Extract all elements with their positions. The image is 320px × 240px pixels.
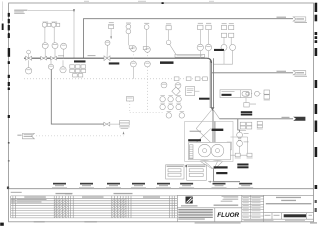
pump skid box — [189, 142, 231, 159]
instrument tag group TG2 — [221, 25, 233, 44]
control valve CV1 — [104, 40, 110, 60]
pipe line D wire — [220, 118, 294, 120]
wire G2 to bubble B2 — [53, 27, 55, 42]
strainer S1 — [237, 132, 243, 138]
bubble C3b — [145, 61, 151, 67]
detail box DB2 — [187, 165, 207, 181]
pipe line B (top header) wire — [84, 19, 294, 59]
dashed wire C3 to C3b — [146, 52, 148, 61]
instrument bubble B1 — [42, 43, 48, 59]
rev cell text — [309, 215, 313, 216]
wire LB1 to riser — [195, 90, 200, 92]
note text in skid — [190, 131, 202, 132]
riser bundle wires — [210, 58, 213, 108]
discharge label L10 (dark) — [216, 172, 227, 174]
continuation label CL4 — [131, 183, 146, 188]
wire V4 to tag TB1 — [110, 123, 120, 125]
valve V1 with actuator — [26, 50, 32, 60]
junction JX fan wires — [196, 110, 219, 142]
instrument bubble I1 below V1 — [25, 60, 31, 74]
client logo — [181, 197, 198, 207]
plot stamp texts below frame — [34, 221, 317, 223]
right edge binding marks — [315, 3, 318, 212]
pipe D label — [282, 117, 290, 118]
suction cone wires — [201, 162, 223, 169]
discharge wire down — [208, 169, 240, 183]
table header text — [24, 196, 46, 197]
continuation label CL7 — [212, 183, 227, 188]
signature hatching — [54, 198, 126, 218]
pipe B size label — [277, 17, 287, 18]
labels L11 (dark rows) — [237, 164, 248, 169]
rev row 2 text — [17, 201, 42, 202]
continuation label CL3 — [106, 183, 121, 188]
pipe A size text — [88, 55, 96, 56]
off-page connector flag F1 — [293, 17, 307, 23]
instrument bubbles J1 J2 — [197, 44, 212, 58]
pipe line C wire — [212, 71, 294, 73]
motor control box MB — [220, 90, 251, 98]
small tags under strainer area — [235, 153, 253, 158]
note N1 text block — [14, 10, 27, 14]
motor block inside skid — [189, 145, 193, 159]
rev row 1 text — [17, 199, 47, 200]
bubble C2b — [131, 61, 137, 67]
continuation label CL2 — [79, 183, 94, 188]
top border zone marks — [84, 1, 214, 4]
instrument tag S1 below line — [48, 60, 53, 69]
corner note — [11, 192, 22, 193]
line label L2 (dark) — [109, 62, 120, 64]
match line caption 1 — [56, 193, 73, 194]
drawing number (dark) — [284, 214, 306, 217]
scale cell text — [265, 215, 280, 216]
continuation label CL8 — [238, 183, 253, 188]
skid outlet label L8 (dark) — [186, 165, 203, 167]
left torn edge line — [2, 2, 4, 31]
texts near strainers — [244, 133, 249, 142]
dashed wire MB to bubble MC1 — [251, 93, 263, 95]
detail box DB1 — [166, 165, 184, 179]
bubble MC1 — [255, 91, 260, 96]
instrument tag T4 — [166, 26, 176, 55]
skid outlet label L9 (dark) — [214, 166, 228, 168]
dashed line D2 — [36, 131, 124, 136]
continuation label CL1 — [52, 183, 67, 188]
logic diamond LD1 — [172, 87, 180, 95]
instrument group G1 (top row) — [42, 22, 51, 28]
instrument tag T5 column — [126, 24, 131, 45]
label L5 (dark) — [199, 98, 210, 100]
logic box LB1 — [186, 87, 195, 96]
off-page connector flag F3 — [17, 133, 34, 138]
tag box TB1 — [119, 120, 129, 128]
wire MB down to tag MT1 — [244, 98, 256, 107]
dashed signal wire to cluster — [130, 112, 148, 114]
match line caption 2 — [114, 193, 133, 194]
note N1 leader wire — [28, 9, 75, 58]
valve V2 on line A — [41, 56, 47, 60]
instrument tag T3 above CV1 — [109, 24, 114, 39]
title block small print upper — [214, 196, 239, 206]
bottom strip text — [244, 219, 306, 222]
line label L1 (dark) — [74, 60, 86, 62]
line label L4 (dark) — [214, 49, 224, 51]
logic bubbles row A — [161, 82, 181, 88]
signal tags on D1 — [174, 77, 207, 81]
off-page connector flag F2 — [293, 71, 307, 77]
bubble matrix row3 — [166, 113, 184, 118]
instrument tag T9 — [126, 97, 133, 113]
relief manifold tag grid TG1 — [70, 65, 86, 77]
dashed instrument signal line D1 — [24, 78, 210, 80]
line label above skid (dark) — [212, 129, 224, 131]
pipe A size text 2 — [58, 55, 64, 56]
line label L3 (dark) — [160, 61, 174, 64]
valve V4 on drain — [104, 122, 110, 126]
pump P1 — [198, 144, 211, 157]
strainer connector ticks — [238, 138, 241, 140]
off-page connector flag F4 (dark) — [293, 117, 305, 121]
junction JX arrowhead — [211, 107, 215, 111]
instrument tag T6 column — [144, 25, 149, 47]
strainer drop wire — [238, 119, 240, 132]
valve V3 on line A — [51, 56, 57, 60]
strainer S2 — [237, 141, 243, 147]
continuation label CL5 — [156, 183, 171, 188]
labels L6 (dark rows) — [241, 111, 252, 115]
continuation label CL6 — [179, 183, 194, 188]
match line — [9, 188, 314, 190]
instrument bubble B2 — [52, 43, 58, 59]
instrument bubble S2 below line — [60, 60, 66, 73]
bubble matrix row1 — [160, 97, 181, 102]
pump P2 — [211, 144, 224, 157]
text under tag stacks pipe D — [240, 129, 263, 131]
strainer outlet wires — [227, 137, 248, 155]
wire G1 to bubble B1 — [44, 27, 46, 42]
approvals text — [243, 197, 261, 217]
svg-text:FLUOR: FLUOR — [217, 212, 239, 219]
main pipe line A wire — [24, 58, 212, 63]
tag texts above top instruments — [109, 22, 234, 24]
instrument group G2 (top row) — [51, 22, 60, 28]
approvals column rows — [242, 195, 264, 219]
bubble cluster C3 — [143, 47, 150, 53]
texts beside logic matrix — [160, 95, 184, 112]
tag stacks under pipe D — [240, 121, 262, 129]
bubble cluster C2 — [129, 46, 136, 52]
dashed wire C2 to C2b — [132, 52, 134, 62]
revision table — [11, 196, 178, 218]
instrument tags T7 T8 above junction — [198, 25, 212, 44]
instrument bubble B3 — [61, 43, 67, 58]
left edge binding marks — [0, 13, 10, 226]
drop wire from S1 to drain line — [51, 69, 104, 124]
wires J3 J4 to riser — [214, 50, 233, 64]
skid enclosure box — [185, 121, 233, 161]
instrument bubbles J3 J4 — [221, 44, 236, 50]
dashed wire C3b down — [147, 67, 163, 113]
bubble matrix row2 — [160, 104, 181, 109]
drawing title text — [266, 197, 312, 205]
spec break bar LR — [175, 54, 205, 57]
wire C2b down to D1 — [132, 67, 134, 79]
pump base marks — [200, 159, 223, 162]
title block frame — [177, 195, 313, 222]
pump skid label (dark) — [188, 139, 201, 141]
disclaimer paragraph — [178, 209, 213, 219]
tag stack TS1 — [264, 90, 270, 100]
